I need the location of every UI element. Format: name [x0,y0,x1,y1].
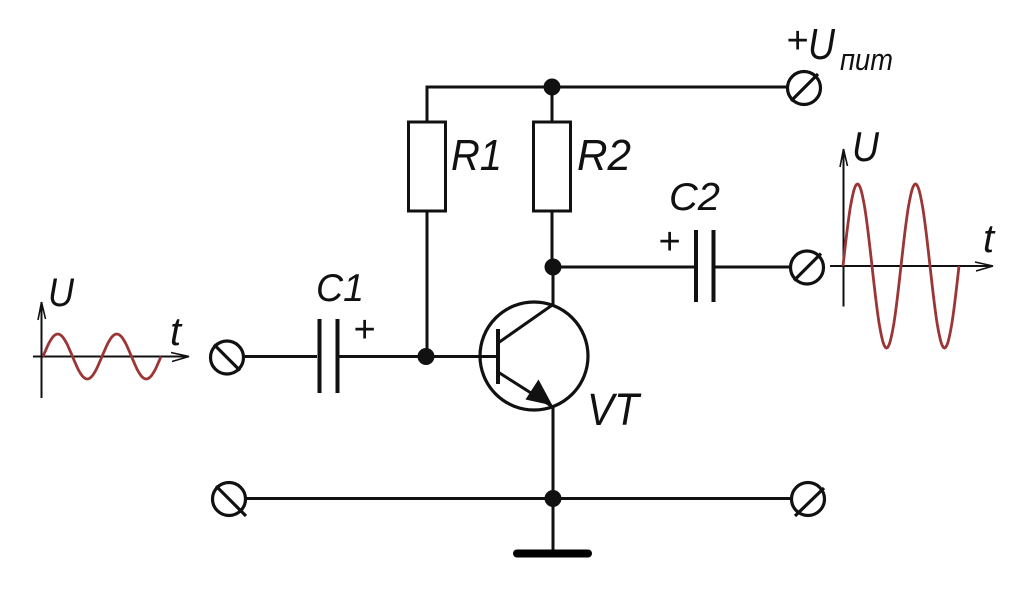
svg-text:t: t [170,310,183,354]
wire: input terminal to C1 [244,355,318,358]
wire: collector to C2 [553,266,694,269]
terminal bottom-left [213,483,247,517]
wire: R2 top lead [551,87,554,122]
svg-text:+: + [658,221,680,263]
wire: C2 to output terminal [716,266,792,269]
terminal bottom-right [792,483,825,517]
svg-text:+: + [786,20,808,62]
output graph U axis [840,149,848,307]
svg-text:пит: пит [840,42,893,77]
svg-text:U: U [48,271,75,315]
capacitor C1 [320,319,338,393]
wire: collector lead [552,267,555,306]
node: top rail junction [544,79,561,96]
wire: R1 bottom lead [426,211,429,357]
ground [517,550,588,558]
input graph t axis [33,353,189,362]
wire: bottom rail [246,497,792,500]
input sine wave [43,334,161,379]
output graph t axis [830,262,993,271]
wire: top supply rail [427,87,788,122]
svg-text:+: + [353,309,375,351]
terminal +Upit [788,72,821,105]
terminal input [211,341,244,374]
svg-text:U: U [808,20,835,69]
svg-text:U: U [852,123,880,170]
resistor R1 [409,122,446,211]
capacitor C2 [696,230,714,302]
svg-text:VT: VT [587,384,642,435]
wire: ground stem [552,499,555,553]
output sine wave [843,184,959,348]
svg-text:R1: R1 [451,131,502,180]
transistor VT [480,302,588,410]
resistor R2 [534,122,571,211]
wire: R2 bottom lead [551,211,554,267]
terminal output [791,251,824,284]
svg-text:t: t [983,217,996,261]
svg-text:C1: C1 [316,267,364,310]
node: collector junction [545,259,562,276]
node: base junction [418,348,435,365]
node: emitter junction [545,490,562,507]
input graph U axis [38,302,46,398]
svg-text:R2: R2 [577,131,631,180]
svg-text:C2: C2 [669,176,720,219]
wire: emitter lead [552,406,555,499]
wire: C1 to base [340,355,499,358]
